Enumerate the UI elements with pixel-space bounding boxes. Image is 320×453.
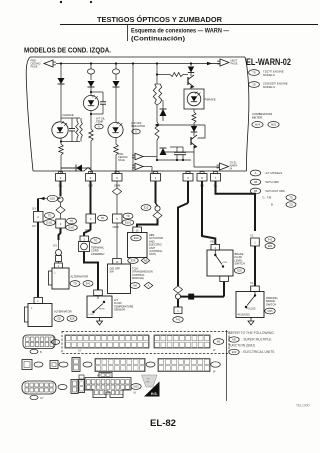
svg-text:TD: TD [252, 71, 256, 75]
capacitor C3 buzzer [176, 147, 178, 152]
svg-text:E28: E28 [70, 317, 75, 321]
resistor R6 buzzer [153, 84, 156, 103]
svg-text:EL-82: EL-82 [150, 418, 176, 429]
preceding page arrow [44, 60, 53, 67]
svg-text:Y/B: Y/B [210, 242, 214, 244]
svg-text:TD: TD [48, 214, 52, 218]
svg-text:CHARGE: CHARGE [62, 113, 74, 117]
svg-text:AB: AB [144, 259, 148, 263]
label under row3 oval [30, 395, 38, 399]
svg-text:(Continuación): (Continuación) [131, 36, 185, 43]
diamond A TCM [144, 282, 153, 289]
connector small row3 d [79, 380, 85, 393]
diamond AB below ABS [141, 257, 150, 264]
wire horizontal col1 to col2 lower [61, 167, 91, 169]
oval M5 row1 [213, 339, 223, 345]
inline connector box G/B [86, 214, 96, 223]
svg-text:E101: E101 [68, 226, 75, 230]
svg-text:TD: TD [126, 214, 130, 218]
A/T sensor pin box [94, 290, 103, 296]
svg-text:TD: TD [289, 196, 293, 200]
wire col3 to lamp [115, 87, 117, 122]
bulb terminal oval col3 [112, 69, 119, 74]
wire *1 thick below meter [155, 181, 157, 203]
resistor R1 below charge lamp [59, 144, 63, 155]
connector small row2 b [50, 361, 58, 369]
svg-text:PAGE: PAGE [231, 62, 238, 66]
brake fluid level switch box [207, 250, 233, 276]
connector face row3 oval [22, 381, 56, 394]
ABS pin box [133, 227, 142, 233]
thick ground rail to junction square [181, 296, 224, 298]
svg-text:MODULE): MODULE) [132, 276, 144, 280]
svg-text:ASSEMBLY: ASSEMBLY [91, 252, 105, 256]
oval E101 inline GL [66, 225, 78, 231]
oval M25 [268, 122, 279, 128]
big connector face M33 [99, 373, 112, 378]
resistor R5 col3 [114, 144, 118, 155]
A/T sensor switch symbol [92, 311, 94, 313]
svg-text:TEMP: TEMP [96, 120, 103, 124]
svg-text:HIGH: HIGH [99, 309, 105, 311]
svg-text:7: 7 [215, 176, 217, 180]
wire G/L diamond to inline box [60, 202, 62, 206]
splice diamond OR/B [113, 188, 122, 195]
svg-text:ZD: ZD [289, 203, 293, 207]
svg-text:GY: GY [40, 397, 44, 400]
inline connector box alternator harness [34, 212, 44, 223]
oval E28 alternator lower [67, 316, 77, 322]
svg-text:E30: E30 [232, 350, 237, 354]
ground below A/T sensor [99, 318, 101, 320]
wire thick to ABS pin [137, 219, 158, 227]
svg-text:H.S.: H.S. [151, 392, 158, 396]
wire col1 lamp to resistor [60, 138, 62, 144]
parking brake pin box [251, 286, 260, 292]
svg-text:G/Y: G/Y [53, 245, 58, 248]
meter connector pin 1 [154, 172, 158, 174]
bullet circle junction G/L [58, 197, 63, 202]
diode D7 [193, 123, 195, 126]
oval E101 inline left [44, 220, 56, 226]
connector view flag gray [142, 375, 158, 387]
connector view flag black H.S. [144, 382, 160, 397]
resistor R7 buzzer [159, 84, 162, 103]
parking brake switch box [236, 292, 264, 318]
oval ZD legend 2 [286, 202, 296, 208]
capacitor C1 charge branch [71, 118, 73, 129]
svg-text:METER: METER [252, 116, 262, 120]
oval F41 bottom [173, 317, 183, 323]
wire brake lamp to resistor [193, 109, 195, 112]
wire col3 lamp to resistor [115, 138, 117, 144]
junction node col1 top [60, 62, 62, 64]
svg-text:M25: M25 [271, 123, 277, 127]
wire thick x38 down to alternator [37, 222, 39, 297]
svg-text:F41: F41 [176, 318, 181, 322]
svg-text:XB: XB [254, 189, 258, 193]
A/T fluid temperature sensor box [87, 296, 112, 318]
oval option A col2 [95, 124, 103, 129]
svg-text:4: 4 [187, 176, 189, 180]
svg-text:: WITHOUT ABS: : WITHOUT ABS [264, 189, 285, 193]
alternator TD pin box [55, 263, 63, 268]
bulb terminal oval col2 [87, 69, 94, 74]
svg-text:: WITH ABS: : WITH ABS [264, 180, 279, 184]
svg-text:F41: F41 [268, 238, 273, 242]
svg-text:TD: TD [70, 219, 74, 223]
a/t oil temp lamp L2 [83, 95, 98, 110]
legend separator line [226, 330, 228, 401]
splice diamond on B wire [174, 286, 183, 293]
label under M24 row1 [30, 349, 38, 353]
svg-text:6: 6 [201, 176, 203, 180]
svg-text:SENSOR: SENSOR [114, 308, 125, 312]
connector grid row2 left [95, 359, 145, 372]
svg-text:M5: M5 [232, 338, 236, 342]
preceding page arrow lower [135, 163, 143, 170]
capacitor C4 buzzer [182, 147, 184, 152]
oval E41 alternator upper [83, 281, 93, 287]
diode D5 buzzer column [156, 105, 158, 108]
connector oval E25 on jog [47, 195, 57, 201]
circle junction Y/B [155, 206, 160, 211]
subtitle divider tick [127, 25, 129, 42]
svg-text:1: 1 [155, 176, 157, 180]
wire G/B col down [90, 181, 92, 214]
capacitor C2 col2 branch [91, 91, 103, 93]
svg-text:M33: M33 [133, 385, 139, 389]
svg-text:ZD: ZD [252, 83, 256, 87]
top supply rail wire [56, 63, 205, 65]
svg-text:MODELS: MODELS [263, 85, 275, 89]
wire col5 from rail [156, 64, 158, 85]
brake warning lamp L4 [187, 92, 201, 106]
svg-text:M35: M35 [267, 309, 273, 313]
svg-text:: SUPER MULTIPLE: : SUPER MULTIPLE [242, 338, 273, 342]
svg-text:E41: E41 [86, 282, 91, 286]
oval M33 row3 [131, 384, 141, 390]
SMJ connector grid left [65, 335, 149, 348]
svg-text:SW: SW [110, 270, 115, 274]
wire thick terminal cord down [84, 252, 98, 291]
wire G/L elbow to left [58, 198, 61, 200]
brake fluid pin box [211, 245, 220, 251]
diode D6 buzzer column [156, 140, 158, 146]
svg-text:RELEASED: RELEASED [238, 314, 251, 317]
meter connector pin 6 [200, 172, 204, 174]
wire thick G/B to terminal cord [90, 223, 92, 230]
charge warning lamp L1 [52, 122, 68, 138]
svg-text:TESTIGOS ÓPTICOS Y ZUMBADOR: TESTIGOS ÓPTICOS Y ZUMBADOR [97, 15, 223, 24]
svg-text:TD: TD [94, 239, 98, 243]
meter connector pin 2 [59, 172, 63, 174]
parking brake switch symbol [254, 294, 256, 296]
alternator box (TD engine) [52, 268, 69, 289]
label BRAKE [204, 98, 206, 100]
svg-text:M24: M24 [255, 123, 261, 127]
oval AB legend [250, 179, 260, 185]
connector small row3 c [71, 380, 78, 394]
svg-text:: ELECTRICAL UNITS: : ELECTRICAL UNITS [242, 350, 276, 354]
ground below parking brake switch [250, 318, 252, 320]
oval M25 row2 [211, 362, 221, 367]
svg-text:OR/B: OR/B [113, 226, 119, 229]
oval TD inline left [45, 213, 55, 219]
terminal cord pin box [80, 236, 89, 242]
svg-text:E15: E15 [144, 206, 149, 210]
meter connector pin 3 [89, 172, 93, 174]
svg-text:MODELOS DE COND. IZQDA.: MODELOS DE COND. IZQDA. [24, 48, 111, 55]
wire col2 lamp to resistor [90, 111, 92, 129]
oval E101 inline ORB [122, 220, 134, 226]
wire to EL-WARN-04 [193, 152, 195, 167]
svg-text:SWITCH: SWITCH [235, 262, 245, 266]
svg-text:Esquema de conexiones — WARN —: Esquema de conexiones — WARN — [131, 28, 229, 35]
wire Q1 collector to brake lamp [193, 87, 195, 89]
connector small row2 c [72, 358, 80, 372]
svg-text:E101: E101 [125, 221, 132, 225]
svg-text:: A/T MODELS: : A/T MODELS [264, 171, 282, 175]
combination meter box outline [30, 56, 245, 58]
svg-text:EL-WARN-02: EL-WARN-02 [246, 57, 291, 68]
svg-text:E29: E29 [237, 269, 242, 273]
dashed SMJ box row1 [62, 332, 229, 354]
diode D3 col3 [115, 74, 117, 80]
svg-text:A: A [98, 125, 100, 129]
svg-text:HS: HS [147, 381, 151, 383]
svg-text:UNIT): UNIT) [149, 252, 156, 256]
meter connector pin 4 [186, 172, 190, 174]
oval TD terminal cord [91, 238, 101, 244]
svg-text:E38: E38 [131, 259, 136, 263]
inline connector box OR/B [113, 214, 123, 223]
svg-text:PAGE: PAGE [118, 159, 125, 162]
svg-text:5: 5 [116, 176, 118, 180]
resistor R10 below brake lamp [192, 112, 196, 123]
svg-text:GY: GY [78, 350, 82, 353]
wire col3 to connector [115, 155, 117, 173]
transistor Q2 [193, 132, 195, 136]
oval TD alternator upper [70, 281, 80, 287]
circle junction on B wire [175, 294, 180, 299]
oval row2 b [59, 362, 68, 367]
svg-text:ALTERNATOR: ALTERNATOR [71, 275, 89, 279]
SMJ connector grid right [154, 335, 210, 348]
svg-text:ALTERNATOR: ALTERNATOR [54, 310, 72, 314]
alternator left bracket [25, 307, 29, 322]
brake fluid bottom pin [220, 276, 229, 282]
alternator TD left bracket [49, 271, 53, 285]
wire Y/L to parking switch [254, 246, 256, 286]
oval E30 inside ABS box [131, 235, 141, 241]
wire B thick down [187, 181, 189, 203]
oval E38 below ABS [128, 258, 138, 264]
svg-text:PULLED: PULLED [247, 309, 256, 311]
svg-text:SWITCH: SWITCH [266, 302, 276, 306]
legend oval E30 [229, 349, 239, 354]
charge parallel branch wires [61, 117, 77, 119]
wire B wire lower thick [177, 299, 179, 307]
svg-text:A: A [255, 171, 257, 175]
oval TD inline GL [67, 218, 77, 224]
resistor R3 charge branch [80, 121, 83, 138]
brake fluid switch symbol [214, 254, 216, 256]
oval row2 d [146, 362, 155, 367]
wire bullet to alternator TD [58, 262, 60, 264]
oval row3 b [58, 385, 67, 390]
wire col1 vertical [60, 64, 62, 122]
oval option A col3 [132, 129, 140, 134]
oval M24 [252, 122, 263, 128]
resistor R9 base link [170, 73, 183, 77]
tiny box above row3 [79, 375, 84, 379]
svg-text:YEL100D: YEL100D [296, 404, 310, 408]
wire brake fluid down to junction [223, 282, 225, 297]
oval M35 parking [265, 308, 275, 314]
wire emitter rail [163, 151, 194, 153]
oval M4 TCM [130, 283, 140, 289]
oval XB legend [250, 188, 260, 194]
diode D4 on horizontal wire [76, 165, 82, 172]
next page arrow [220, 59, 229, 66]
connector small row2 a [22, 360, 32, 370]
oval TD legend 2 [286, 195, 296, 201]
inline connector parking harness [251, 238, 260, 246]
svg-text:B: B [271, 203, 273, 207]
splice diamond G/L column [56, 206, 65, 213]
preceding page arrow upper [135, 153, 143, 160]
svg-text:E25: E25 [50, 197, 55, 201]
oval small right of row1 connector [51, 340, 59, 345]
wire G/L below meter [60, 181, 62, 196]
oval row2 a [34, 362, 43, 367]
svg-text:ZD: ZD [57, 317, 61, 321]
oval E15 on Y/B jog [141, 205, 151, 211]
svg-text:AB: AB [254, 180, 258, 184]
svg-text:TD: TD [101, 216, 105, 220]
svg-text:A: A [135, 130, 137, 134]
alternator box (ZD engine) [28, 304, 52, 327]
inline connector B bottom [174, 307, 182, 314]
svg-text:TD: TD [73, 282, 77, 286]
svg-text:2: 2 [60, 176, 62, 180]
svg-text:PAGE: PAGE [31, 65, 38, 69]
svg-text:BRAKE: BRAKE [207, 98, 216, 102]
oval row2 c [83, 362, 92, 367]
diode D1 charge column [58, 78, 65, 84]
resistor R4 col2 [89, 129, 93, 141]
title underline rule [60, 24, 318, 26]
splice diamond Y/B [153, 212, 162, 219]
oval ZD legend [249, 82, 260, 88]
TCM box with O/D OFF SW [108, 264, 131, 294]
svg-text:A: A [148, 284, 150, 288]
oval F41 parking [265, 237, 275, 243]
oval A legend [250, 170, 260, 176]
legend oval M5 [229, 337, 239, 342]
wire col1 resistor to connector [60, 155, 62, 173]
svg-text:REFER TO THE FOLLOWING.: REFER TO THE FOLLOWING. [229, 331, 275, 335]
svg-text:E30: E30 [134, 236, 139, 240]
connector grid row2 right [158, 359, 210, 372]
svg-text:E81: E81 [268, 244, 273, 248]
wire Q2 emitter down [196, 147, 198, 150]
transistor Q1 [190, 64, 192, 67]
connector face M24 row1 [23, 335, 55, 349]
svg-text:MODELS: MODELS [263, 73, 275, 77]
wire col4 vertical from rail [132, 64, 134, 172]
svg-text:JUNCTION (SMJ): JUNCTION (SMJ) [229, 344, 255, 348]
resistor R2 charge branch [77, 117, 80, 119]
svg-text:M4: M4 [133, 284, 137, 288]
arrow on G/L jog [40, 197, 45, 200]
rail to Q2 base [155, 124, 205, 126]
ABS actuator box [128, 233, 148, 258]
wire col2 to lamp [90, 87, 92, 95]
diode D2 col2 [90, 74, 92, 80]
svg-text:E101: E101 [46, 221, 53, 225]
wire thick down x38 [37, 199, 39, 212]
rail direction arrow [207, 62, 212, 66]
wire OR/B down [116, 181, 118, 188]
svg-text:G/Y: G/Y [32, 225, 37, 228]
wire Y/G thick down [202, 181, 215, 244]
oval E81 parking [265, 243, 275, 249]
oval ZD alternator lower [54, 316, 64, 322]
junction square node [189, 294, 194, 299]
bullet connector col x60 [59, 228, 61, 240]
oval E29 brake fluid [234, 268, 244, 274]
brake lamp box [184, 89, 204, 109]
resistor R8 buzzer column [155, 122, 159, 140]
alternator lower pin box [34, 298, 43, 304]
oval TD legend [249, 70, 260, 76]
wire Y/L thick elbow [216, 181, 256, 231]
svg-text:*1 : T/B: *1 : T/B [262, 196, 271, 200]
svg-text:3: 3 [90, 176, 92, 180]
oval TD inline ORB [123, 213, 133, 219]
inline connector box G/L col [56, 219, 66, 228]
to el-warn-04 arrow [220, 163, 229, 170]
wire OR/B to TCM [116, 223, 118, 259]
svg-text:G/Y: G/Y [32, 208, 37, 211]
TCM pin box [113, 259, 122, 265]
wire col2 to connector [90, 141, 92, 173]
o/d off indicator lamp L3 [108, 122, 123, 137]
oval TD inline GB [98, 215, 108, 221]
meter connector pin 7 [214, 172, 218, 174]
svg-text:M5: M5 [217, 340, 221, 344]
meter connector pin 5 [115, 172, 119, 174]
terminal cord assembly connector [79, 242, 90, 252]
wire buzzer top link [157, 74, 170, 76]
